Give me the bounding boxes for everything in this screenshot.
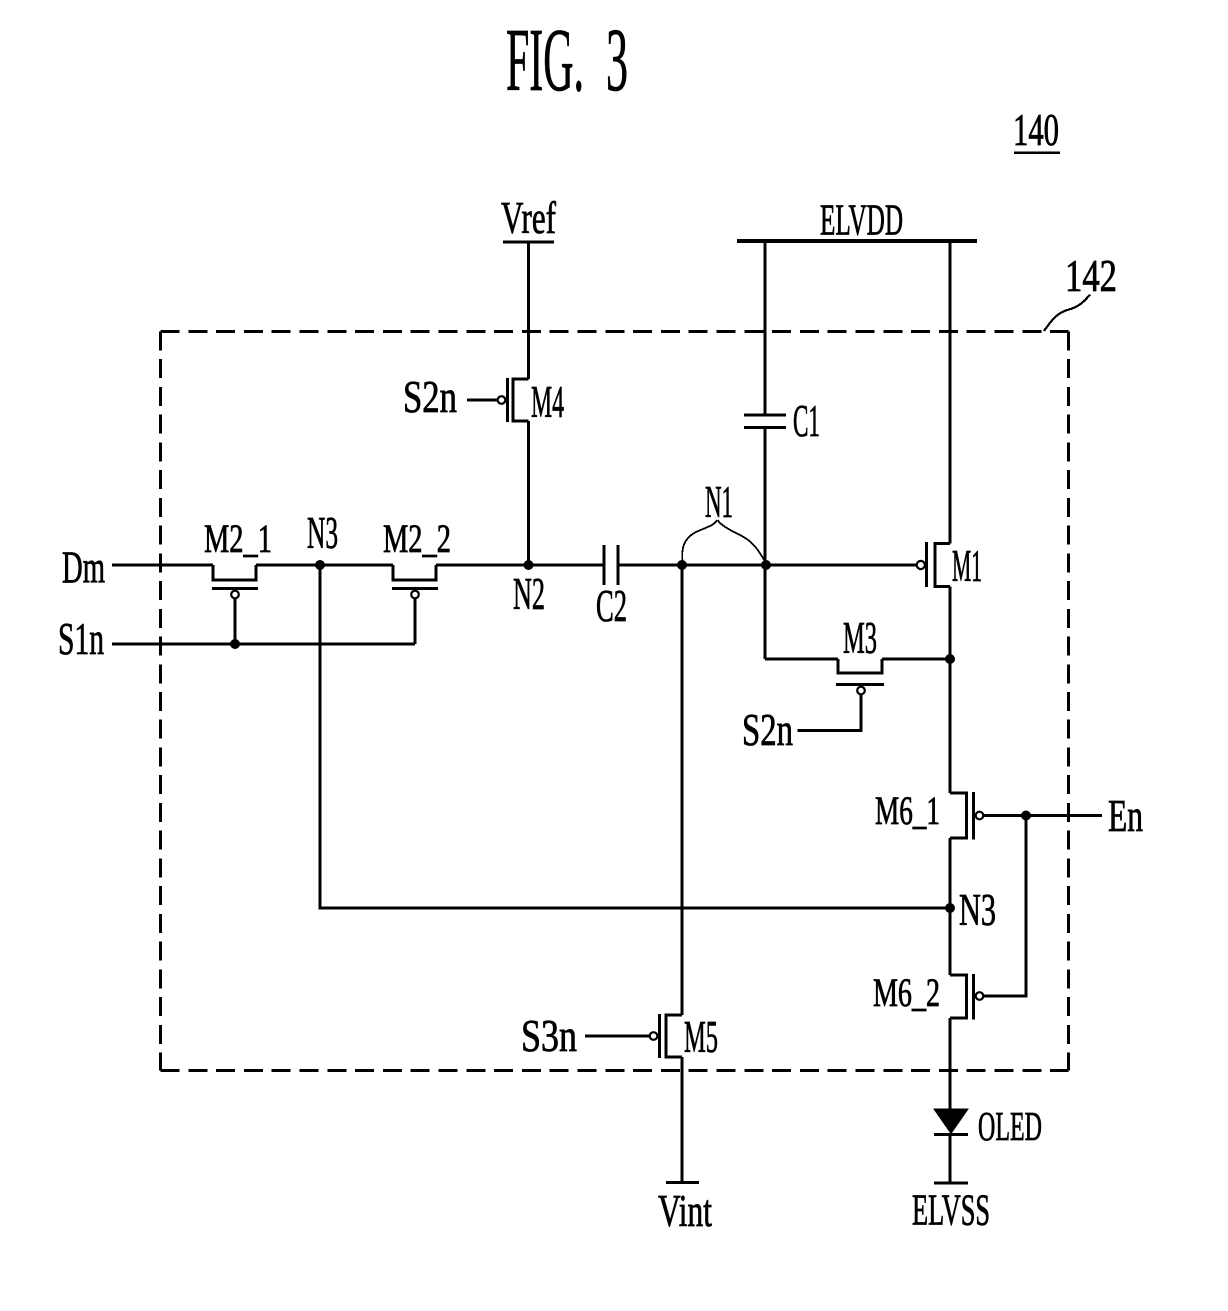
svg-text:ELVSS: ELVSS (912, 1186, 990, 1235)
svg-text:S2n: S2n (742, 705, 793, 755)
svg-text:M4: M4 (531, 377, 564, 427)
svg-text:C1: C1 (793, 396, 820, 446)
svg-text:M6_2: M6_2 (873, 970, 940, 1015)
svg-text:N3: N3 (307, 508, 338, 558)
svg-text:ELVDD: ELVDD (820, 196, 903, 245)
svg-text:S1n: S1n (58, 614, 104, 664)
svg-text:M2_1: M2_1 (204, 516, 272, 561)
svg-text:S3n: S3n (521, 1011, 577, 1061)
svg-text:En: En (1108, 791, 1143, 841)
svg-text:C2: C2 (596, 581, 627, 631)
svg-text:Vref: Vref (501, 193, 556, 243)
svg-text:FIG.: FIG. (506, 11, 584, 110)
svg-text:142: 142 (1065, 251, 1117, 301)
svg-text:Dm: Dm (62, 543, 105, 593)
svg-text:M5: M5 (684, 1012, 718, 1062)
svg-text:N3: N3 (959, 885, 996, 935)
svg-text:M2_2: M2_2 (383, 516, 451, 561)
svg-text:M6_1: M6_1 (875, 788, 940, 833)
svg-text:N2: N2 (513, 569, 545, 619)
svg-text:140: 140 (1013, 105, 1059, 155)
svg-text:M1: M1 (952, 541, 982, 591)
svg-text:N1: N1 (705, 477, 733, 527)
svg-text:M3: M3 (843, 613, 877, 663)
svg-text:3: 3 (606, 11, 628, 110)
svg-text:Vint: Vint (658, 1186, 712, 1236)
svg-text:S2n: S2n (403, 372, 457, 422)
svg-text:OLED: OLED (978, 1103, 1042, 1149)
